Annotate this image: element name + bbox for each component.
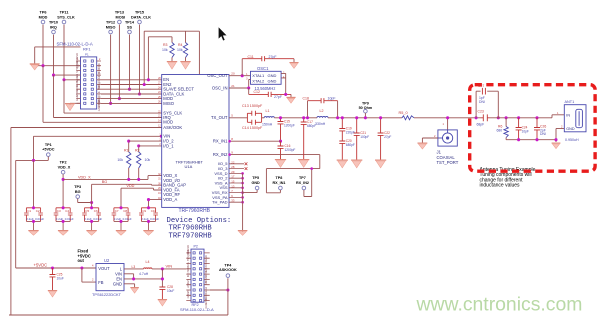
capacitor C26 2pF DNI (535, 116, 538, 119)
wire cap pair bottom (141, 221, 155, 231)
capacitor C22 27pF (378, 118, 384, 161)
svg-text:TP15: TP15 (135, 11, 144, 15)
svg-text:DNI: DNI (479, 100, 485, 104)
ground under R3 (167, 61, 177, 63)
svg-text:DATA_CLK: DATA_CLK (131, 15, 151, 19)
wire C12 to ground (290, 94, 292, 97)
wire MOSI from TP13 (118, 25, 120, 99)
svg-text:10k: 10k (177, 48, 183, 52)
svg-text:VIN: VIN (166, 263, 173, 268)
svg-text:C3: C3 (57, 209, 61, 213)
svg-text:RX_IN1: RX_IN1 (273, 181, 286, 185)
svg-text:0.01uF: 0.01uF (93, 217, 102, 221)
svg-text:BG: BG (102, 180, 108, 184)
wire IRQ from TP10 (53, 35, 55, 76)
svg-text:TP1: TP1 (45, 143, 52, 147)
ground under RF1 (70, 103, 81, 105)
ground under cap pair (28, 230, 38, 232)
capacitor C5 2.2uF (82, 208, 99, 222)
svg-text:RX_IN2: RX_IN2 (296, 181, 309, 185)
capacitor C28 10uF (159, 287, 165, 300)
wire DATA_CLK from TP15 (139, 25, 141, 94)
ground under C28 (158, 299, 167, 301)
capacitor C10 0.01uF (153, 208, 158, 222)
ground under cap pair (58, 230, 68, 232)
svg-text:C10: C10 (151, 209, 157, 213)
svg-text:R3: R3 (163, 43, 168, 47)
svg-text:220pF: 220pF (346, 131, 355, 135)
wire C11 to ground (293, 59, 295, 63)
IC U1A TRF796xRHBT (162, 75, 229, 208)
svg-text:L2: L2 (320, 109, 324, 113)
ground right of C11 (289, 62, 298, 64)
svg-text:Device Options:: Device Options: (167, 217, 232, 225)
capacitor C15 1200pF (278, 118, 284, 141)
svg-text:VDD_X: VDD_X (58, 165, 71, 169)
capacitor C4 0.01uF (68, 208, 73, 222)
svg-text:27pF: 27pF (269, 55, 277, 59)
wire TX_OUT (229, 117, 247, 119)
wire VIN node (152, 268, 186, 270)
svg-text:VDD: VDD (126, 184, 134, 188)
svg-text:GND: GND (75, 95, 79, 101)
svg-text:C4: C4 (65, 209, 69, 213)
svg-text:C2: C2 (36, 209, 40, 213)
ground under C16 (275, 159, 286, 161)
svg-text:TP8: TP8 (276, 176, 283, 180)
dashed tuning box (470, 85, 595, 172)
svg-text:EN: EN (186, 279, 190, 283)
ground under C22 (375, 159, 386, 161)
svg-text:EN2: EN2 (204, 286, 208, 292)
svg-text:TP13: TP13 (115, 11, 124, 15)
svg-text:1200pF: 1200pF (285, 148, 296, 152)
wire SYS_CLK to U1 (64, 80, 162, 113)
svg-text:680pF: 680pF (307, 124, 316, 128)
svg-text:TP10: TP10 (49, 21, 58, 25)
wire IRQ to U1 (54, 75, 162, 117)
wire BG rail (92, 183, 162, 186)
svg-text:R4: R4 (178, 43, 183, 47)
svg-text:EN2: EN2 (97, 81, 101, 87)
svg-text:10pF: 10pF (522, 130, 529, 134)
svg-text:MOD: MOD (39, 15, 48, 19)
svg-text:C11: C11 (248, 55, 254, 59)
svg-text:U2: U2 (104, 258, 110, 263)
svg-text:VDD_A: VDD_A (163, 197, 177, 202)
RF2 left pin stubs (186, 253, 191, 301)
ground under cap pair (116, 230, 126, 232)
svg-text:27pF: 27pF (274, 95, 282, 99)
wire SS from TP14 (129, 35, 131, 90)
svg-text:C7: C7 (115, 209, 119, 213)
wire drop to C1 C2 (33, 160, 35, 207)
ground under R4 (180, 61, 190, 63)
svg-text:DATA_CLK: DATA_CLK (75, 74, 79, 87)
ground under cap pair (143, 230, 153, 232)
wire MOD(MOSI) to U1 (101, 98, 162, 100)
svg-text:SYS_CLK: SYS_CLK (186, 249, 190, 261)
capacitor C1 2.2uF (24, 208, 40, 222)
wire TX main line (274, 117, 402, 119)
svg-text:P1: P1 (85, 52, 89, 56)
ground under cap pair (86, 230, 96, 232)
svg-text:MOD: MOD (186, 266, 190, 272)
svg-text:C6: C6 (94, 209, 98, 213)
svg-text:I/O: I/O (204, 298, 208, 301)
svg-text:10uF: 10uF (167, 289, 174, 293)
capacitor C12 27pF (248, 88, 250, 94)
svg-text:10k: 10k (162, 48, 168, 52)
svg-text:TP4: TP4 (224, 263, 232, 267)
svg-text:IRQ: IRQ (50, 25, 57, 29)
svg-text:GND: GND (268, 78, 277, 83)
svg-text:TP7: TP7 (299, 176, 306, 180)
svg-text:RX_IN1: RX_IN1 (213, 139, 228, 144)
wire I/O_2 row (129, 140, 162, 142)
svg-text:R1: R1 (124, 148, 129, 152)
svg-text:TRF7970RHB: TRF7970RHB (169, 232, 213, 240)
ground ANT1 (552, 142, 561, 144)
svg-text:0.01uF: 0.01uF (65, 217, 74, 221)
wire EN2 row (101, 84, 162, 86)
capacitor C25 10uF (50, 268, 56, 291)
RF1 right pin stubs (97, 61, 101, 103)
svg-text:0.01uF: 0.01uF (35, 217, 44, 221)
svg-text:ANT1: ANT1 (565, 100, 575, 104)
wire TP5 to bus (243, 190, 258, 193)
svg-text:330nH: 330nH (315, 122, 326, 126)
svg-text:MOSI: MOSI (116, 15, 126, 19)
no-connect stubs (229, 164, 244, 169)
wire RX_IN2 (229, 154, 320, 156)
wire +5VDC down left side (15, 160, 17, 268)
wire VDD rail (121, 188, 162, 190)
svg-text:DNI: DNI (540, 132, 546, 136)
svg-text:L1: L1 (266, 109, 270, 113)
wire SYS_CLK from TP11 (63, 25, 65, 80)
wire cap pair bottom (56, 221, 70, 231)
wire RX lane (266, 155, 319, 169)
svg-text:0.01uF: 0.01uF (123, 217, 132, 221)
svg-text:TP11: TP11 (60, 11, 69, 15)
capacitor C27 1pF DNI (476, 91, 498, 118)
wire TP8 hook (266, 169, 280, 193)
capacitor C23 68pF (475, 116, 478, 119)
svg-text:TP14: TP14 (125, 21, 135, 25)
svg-text:TRF7960RHB: TRF7960RHB (179, 208, 211, 214)
wire MISO from TP12 (110, 35, 112, 104)
svg-text:GND: GND (186, 293, 190, 299)
svg-text:IRQ: IRQ (97, 73, 101, 78)
ground under C12 (286, 96, 295, 98)
svg-text:ASK/OOK: ASK/OOK (219, 268, 237, 272)
svg-text:1200pF: 1200pF (284, 124, 295, 128)
wire MISO to U1 (101, 102, 162, 104)
wire VIN row (34, 136, 162, 160)
wire RX_IN1 (229, 140, 281, 142)
svg-text:SYS_CLK: SYS_CLK (75, 61, 79, 73)
svg-text:I/O: I/O (186, 290, 190, 293)
ground J1 (417, 142, 427, 144)
wire OSC_OUT (229, 75, 251, 77)
svg-text:MISO: MISO (106, 25, 116, 29)
wire drop to C9 C10 (149, 200, 162, 208)
svg-text:XTAL2: XTAL2 (252, 78, 265, 83)
wire I/O_1 row (139, 145, 162, 147)
svg-text:BG: BG (75, 190, 81, 194)
ground U2 (130, 287, 139, 289)
wire EN row (101, 79, 162, 81)
svg-text:TPS61222DCKT: TPS61222DCKT (92, 292, 122, 297)
capacitor C11 27pF (241, 59, 243, 76)
svg-text:68pF: 68pF (477, 123, 485, 127)
svg-text:GND: GND (252, 181, 261, 185)
svg-text:I/O_1: I/O_1 (163, 143, 174, 148)
wire cap pair bottom (85, 221, 99, 231)
svg-text:TP6: TP6 (40, 11, 47, 15)
svg-text:TST_PORT: TST_PORT (437, 160, 459, 165)
svg-text:4.7uH: 4.7uH (139, 272, 149, 276)
capacitor C2 0.01uF (38, 208, 43, 222)
svg-text:TP9: TP9 (362, 101, 369, 105)
wire cap pair bottom (114, 221, 128, 231)
wire OSC1 gnd pins (281, 73, 286, 94)
ground under C17 (298, 159, 309, 161)
svg-text:SS: SS (204, 281, 208, 285)
wire VSS bus stubs (229, 173, 243, 202)
wire TP2 drop to C3 C4 (62, 174, 64, 208)
svg-text:TH_PAD: TH_PAD (212, 200, 228, 205)
svg-text:TRF7960RHB: TRF7960RHB (169, 225, 213, 233)
wire MOD from TP6 (42, 25, 44, 66)
svg-text:GND: GND (113, 282, 122, 287)
svg-text:10uF: 10uF (57, 277, 64, 281)
wire SLAVE SELECT to U1 (101, 88, 162, 90)
wire to antenna section (414, 117, 481, 119)
svg-text:MISO: MISO (163, 101, 174, 106)
capacitor C17 680pF (301, 118, 307, 160)
svg-text:L3: L3 (132, 265, 136, 269)
svg-text:680: 680 (497, 129, 503, 133)
wire J1 drop (447, 118, 449, 130)
svg-text:0.950uH: 0.950uH (565, 138, 579, 142)
wire ASK/OOK loop left (11, 128, 162, 316)
svg-text:GND: GND (204, 255, 208, 261)
capacitor C21 100pF (354, 118, 360, 161)
svg-text:C12: C12 (254, 90, 260, 94)
svg-text:L4: L4 (146, 260, 150, 264)
svg-text:150nH: 150nH (262, 122, 273, 126)
capacitor C8 0.01uF (126, 208, 131, 222)
wire J1 shield to ground (422, 138, 438, 143)
ground under C21 (351, 159, 362, 161)
svg-text:VDD_X: VDD_X (78, 175, 91, 179)
svg-text:21: 21 (231, 84, 235, 88)
svg-text:TP12: TP12 (106, 21, 115, 25)
wire TP3 hook (78, 199, 92, 203)
svg-text:GND: GND (97, 105, 101, 111)
wire U2 L pin to L4 (124, 268, 144, 270)
svg-text:inductance values: inductance values (480, 183, 521, 189)
svg-text:GND: GND (566, 127, 575, 131)
ground under C25 (48, 290, 57, 292)
svg-text:680pF: 680pF (346, 143, 355, 147)
wire ANT1 GND pin (556, 128, 564, 130)
wire VDD_X rail (63, 176, 162, 180)
svg-text:C9: C9 (142, 209, 146, 213)
wire TP7 hook (304, 169, 312, 197)
svg-text:RX_IN2: RX_IN2 (213, 152, 228, 157)
svg-text:R5_0: R5_0 (399, 111, 408, 115)
svg-text:U1A: U1A (185, 164, 193, 169)
svg-text:VOUT: VOUT (98, 266, 110, 271)
svg-text:100pF: 100pF (360, 135, 369, 139)
capacitor C16 1200pF (278, 141, 284, 160)
wire +5VDC rail (16, 267, 96, 269)
svg-text:OSC_OUT: OSC_OUT (207, 73, 228, 78)
wire EN2 loop top (144, 31, 199, 74)
RF1 left pin stubs (77, 61, 81, 103)
capacitor C7 2.2uF (112, 208, 129, 222)
svg-text:C5: C5 (85, 209, 89, 213)
ground under C20 (337, 159, 348, 161)
svg-text:C18: C18 (303, 97, 309, 101)
wire DATA_CLK row to U1 (101, 93, 162, 95)
wire OSC_IN (229, 80, 251, 89)
svg-text:IN: IN (566, 114, 570, 118)
svg-text:ASK/OOK: ASK/OOK (163, 125, 182, 130)
svg-text:SYS_CLK: SYS_CLK (57, 15, 75, 19)
wire VSS bus (242, 173, 244, 232)
svg-text:10pF: 10pF (328, 97, 336, 101)
svg-text:TP2: TP2 (60, 161, 67, 165)
wire cap pair bottom (26, 221, 40, 231)
wire antenna ground rail (506, 129, 556, 143)
svg-text:IRQ: IRQ (186, 273, 190, 278)
wire TP1 to +5VDC rail (16, 157, 49, 161)
wire drop to C7 C8 (120, 188, 122, 208)
capacitor C24 10pF (517, 116, 520, 119)
svg-text:SFM-110-02-L-D-A: SFM-110-02-L-D-A (180, 307, 214, 312)
svg-text:SS: SS (127, 25, 133, 29)
wire TP4 loop to ASK/OOK (9, 278, 228, 315)
svg-text:0.01uF: 0.01uF (150, 217, 159, 221)
wire U2 GND pin (124, 284, 135, 288)
wire EN inner loop (148, 37, 172, 80)
svg-text:www.cntronics.com: www.cntronics.com (416, 294, 583, 316)
mouse cursor (218, 27, 227, 41)
svg-text:C8: C8 (123, 209, 127, 213)
svg-text:27pF: 27pF (384, 135, 391, 139)
svg-text:ASK: ASK (186, 282, 190, 287)
svg-text:SS: SS (97, 86, 101, 90)
wire drop to C5 C6 (91, 184, 93, 208)
svg-text:20: 20 (231, 72, 235, 76)
capacitor C20 680pF (339, 138, 345, 161)
svg-text:C23: C23 (478, 110, 484, 114)
svg-text:TX_OUT: TX_OUT (211, 115, 228, 120)
svg-text:VDD: VDD (204, 260, 208, 266)
svg-text:VDD: VDD (97, 63, 101, 69)
svg-text:OSC_IN: OSC_IN (212, 85, 228, 90)
svg-text:TP3: TP3 (74, 185, 81, 189)
svg-text:C13 1500pF: C13 1500pF (242, 104, 263, 108)
svg-text:OSC1: OSC1 (257, 66, 269, 71)
svg-text:out: out (78, 258, 85, 263)
svg-text:RF1: RF1 (83, 46, 91, 51)
resistor R6 680 (505, 116, 508, 119)
svg-text:FB: FB (98, 280, 104, 285)
svg-text:+5VDC: +5VDC (42, 148, 55, 152)
wire MOD to U1 (43, 66, 162, 123)
RF2 right pin stubs (204, 253, 210, 301)
svg-text:10k: 10k (117, 158, 123, 162)
svg-text:+5VDC: +5VDC (34, 263, 48, 268)
ground top-left (30, 63, 40, 65)
svg-text:TP5: TP5 (252, 176, 259, 180)
wire U2 VIN EN tie (124, 269, 162, 287)
svg-text:C14 1500pF: C14 1500pF (242, 126, 263, 130)
wire loop above RF1 (35, 47, 81, 64)
wire C23 out (490, 115, 565, 118)
wire FB feedback loop (82, 268, 96, 282)
ground VSS bus (238, 230, 248, 232)
wire RF2 to TP4 (210, 289, 228, 291)
svg-text:10k: 10k (145, 158, 151, 162)
capacitor C6 0.01uF (96, 208, 101, 222)
svg-text:C1: C1 (27, 209, 31, 213)
capacitor C19 220pF (339, 118, 345, 138)
capacitor C9 2.2uF (139, 208, 156, 222)
capacitor C18 10pF bridge (308, 101, 338, 118)
svg-text:P2: P2 (194, 244, 198, 248)
capacitor C3 2.2uF (54, 208, 70, 222)
